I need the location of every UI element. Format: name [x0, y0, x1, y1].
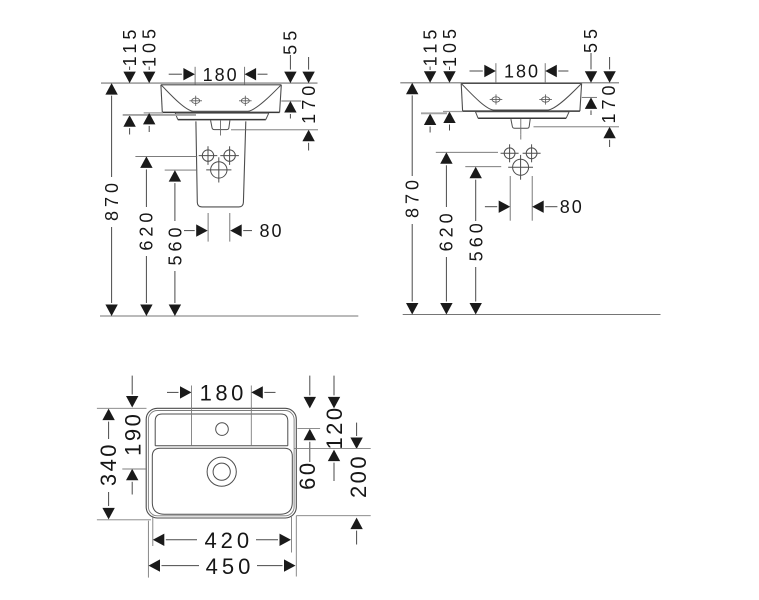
svg-text:450: 450 [206, 554, 255, 579]
svg-text:60: 60 [295, 460, 320, 489]
svg-text:170: 170 [299, 82, 319, 124]
dimension 105 (left view) [140, 25, 163, 132]
svg-text:200: 200 [346, 454, 371, 498]
dimension 170 (right view) [534, 57, 620, 147]
pedestal fixing hole left [199, 146, 218, 165]
wall line (right view) [400, 82, 619, 84]
drain outer circle (plan view) [207, 457, 236, 486]
svg-text:180: 180 [504, 62, 540, 82]
dimension 190 (plan view) [120, 376, 146, 495]
bowl outline (plan view) [152, 448, 292, 514]
dimension 450 (plan view) [148, 516, 296, 579]
ledge front edge [155, 445, 288, 447]
svg-text:105: 105 [140, 25, 160, 67]
svg-text:870: 870 [102, 179, 122, 221]
basin front outline (left view) [161, 85, 281, 136]
dimension 870 (left view) [102, 83, 122, 316]
floor line (left view) [100, 315, 358, 317]
dimension 180 (left view) [169, 65, 268, 85]
svg-text:180: 180 [203, 65, 239, 85]
svg-text:180: 180 [200, 380, 247, 405]
dimension 80 (right view) [485, 176, 584, 221]
dimension 180 (plan view) [167, 380, 276, 445]
dimension 55 (right view) [581, 25, 601, 115]
wall fixing hole left (right view) [501, 144, 519, 162]
dimension 55 (left view) [280, 27, 301, 119]
svg-text:80: 80 [259, 221, 283, 241]
svg-text:115: 115 [120, 26, 140, 67]
svg-text:620: 620 [437, 209, 457, 251]
svg-text:190: 190 [120, 412, 145, 456]
siphon cover pedestal [196, 121, 246, 206]
svg-text:170: 170 [599, 81, 619, 123]
dimension 870 (right view) [403, 83, 423, 315]
dimension 115 (left view) [120, 26, 196, 135]
dimension 200 (plan view) [294, 423, 371, 545]
outer rim of basin (plan view) [146, 408, 296, 518]
svg-text:560: 560 [466, 219, 486, 261]
drain inner circle (plan view) [213, 463, 230, 480]
drain hole (right view) [508, 155, 533, 180]
faucet hole (plan view) [216, 423, 229, 436]
dimension 420 (plan view) [153, 516, 292, 553]
wall fixing hole right (right view) [523, 144, 541, 162]
dimension 115 (right view) [421, 26, 448, 133]
wall line (left view) [101, 82, 318, 84]
svg-text:620: 620 [137, 209, 157, 251]
pedestal fixing hole right [220, 146, 239, 165]
dimension 120 (plan view) [322, 376, 347, 481]
dimension 560 (left view) [165, 170, 198, 316]
dimension 180 (right view) [470, 62, 569, 83]
svg-text:120: 120 [322, 405, 347, 449]
dimension 105 (right view) [440, 25, 463, 131]
svg-text:80: 80 [560, 197, 584, 217]
svg-text:55: 55 [280, 27, 300, 55]
dimension 620 (left view) [135, 156, 197, 316]
svg-text:340: 340 [96, 442, 121, 486]
svg-text:420: 420 [204, 528, 253, 553]
svg-text:105: 105 [440, 25, 460, 67]
pedestal drain hole [206, 157, 231, 182]
svg-text:55: 55 [581, 25, 601, 53]
dimension 60 (plan view) [295, 376, 320, 490]
dimension 620 (right view) [436, 152, 498, 314]
svg-text:115: 115 [421, 26, 441, 67]
svg-text:870: 870 [403, 176, 423, 218]
dimension 170 (left view) [231, 57, 319, 151]
rear tap ledge (plan view) [155, 414, 288, 446]
dimension 340 (plan view) [96, 408, 151, 520]
inner rim line (plan view) [148, 411, 294, 516]
dimension 560 (right view) [465, 167, 501, 315]
floor line (right view) [403, 314, 661, 316]
svg-text:560: 560 [166, 223, 186, 265]
dimension 80 (left view) [184, 213, 284, 242]
drain centerline extension (right view) [520, 134, 522, 139]
basin front outline (right view) [461, 84, 581, 135]
